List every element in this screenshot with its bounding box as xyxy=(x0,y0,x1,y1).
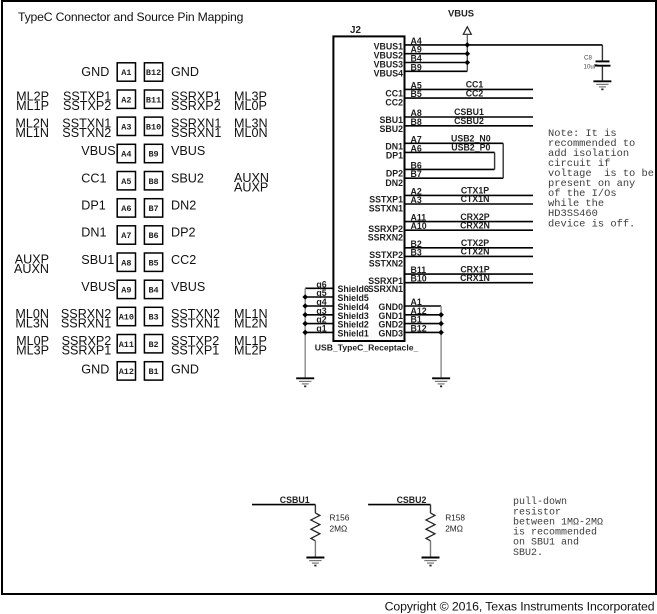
svg-text:USB2_P0: USB2_P0 xyxy=(451,143,490,153)
svg-text:B4: B4 xyxy=(148,286,158,296)
wire pin A8 xyxy=(405,116,534,118)
svg-text:SBU2: SBU2 xyxy=(171,171,204,185)
pin name Shield4 xyxy=(338,302,369,312)
svg-text:DP1: DP1 xyxy=(386,150,403,160)
net label CSBU2 xyxy=(454,116,484,126)
wire pin B5 xyxy=(405,97,534,99)
wire pin q6 xyxy=(305,287,333,289)
svg-text:B7: B7 xyxy=(148,204,158,214)
table near-right label VBUS xyxy=(171,280,205,294)
table far-right label ML1N/ML2N xyxy=(234,307,268,330)
copyright xyxy=(385,600,655,614)
note text (pull-down) xyxy=(513,496,603,559)
value 2MOhm (R158) xyxy=(445,524,463,534)
pin number A9 xyxy=(411,45,422,55)
svg-text:CSBU2: CSBU2 xyxy=(397,495,427,505)
wire USB2_P0 loop vertical xyxy=(494,152,496,169)
net label CC1 xyxy=(466,80,484,90)
pin name SSRXP1 xyxy=(368,276,403,286)
svg-text:SSTXN1: SSTXN1 xyxy=(171,316,220,330)
svg-text:VBUS: VBUS xyxy=(81,280,115,294)
pin name SBU2 xyxy=(380,124,404,134)
svg-text:Shield1: Shield1 xyxy=(338,328,369,338)
svg-text:CTX1N: CTX1N xyxy=(461,194,490,204)
pin number q6 xyxy=(316,279,326,289)
wire CSBU2 xyxy=(368,504,430,506)
resistor R156 xyxy=(311,505,320,557)
junction VBUS A9 xyxy=(465,51,471,57)
capacitor C8 xyxy=(595,45,611,80)
svg-text:B8: B8 xyxy=(411,117,422,127)
junction shield g at y=314.8 xyxy=(302,312,308,318)
svg-text:VBUS: VBUS xyxy=(81,144,115,158)
wire pin q3 xyxy=(305,314,333,316)
svg-text:B1: B1 xyxy=(148,367,158,377)
net label CTX2P xyxy=(461,238,489,248)
pin box A4 xyxy=(117,144,135,162)
note text (isolation) xyxy=(548,128,654,230)
pin name CC1 xyxy=(385,89,403,99)
svg-text:ML1P: ML1P xyxy=(16,99,49,113)
svg-text:AUXN: AUXN xyxy=(14,262,49,276)
wire pin A12 xyxy=(405,314,442,316)
table near-left label GND xyxy=(81,65,109,79)
svg-text:A4: A4 xyxy=(121,150,131,160)
svg-text:R158: R158 xyxy=(445,512,465,522)
svg-text:A10: A10 xyxy=(119,313,134,323)
svg-text:SSRXN1: SSRXN1 xyxy=(368,284,403,294)
pin number A5 xyxy=(411,80,422,90)
pin name DP1 xyxy=(386,150,403,160)
pin number B6 xyxy=(411,160,422,170)
pin box A3 xyxy=(117,117,135,135)
svg-text:GND: GND xyxy=(171,362,199,376)
pin number A12 xyxy=(411,306,427,316)
pin name Shield3 xyxy=(338,311,369,321)
wire pin A1 xyxy=(405,305,442,307)
svg-text:CSBU1: CSBU1 xyxy=(280,495,310,505)
pin number B4 xyxy=(411,54,422,64)
label C8 xyxy=(584,54,592,61)
pin number B11 xyxy=(411,265,427,275)
wire pin B2 xyxy=(405,247,534,249)
svg-text:2MΩ: 2MΩ xyxy=(445,524,463,534)
ground (shield) xyxy=(296,378,314,387)
svg-text:A6: A6 xyxy=(411,143,422,153)
junction VBUS A4 xyxy=(465,42,471,48)
net label CSBU1 xyxy=(454,107,484,117)
junction GND at y=314.8 xyxy=(438,312,444,318)
net label CRX2P xyxy=(460,212,489,222)
svg-text:DN1: DN1 xyxy=(81,226,106,240)
pin name Shield2 xyxy=(338,320,369,330)
svg-text:A9: A9 xyxy=(121,286,131,296)
pin box A9 xyxy=(117,280,135,298)
net label USB2_P0 xyxy=(451,143,490,153)
table near-right label SSRXP1/SSRXP2 xyxy=(171,90,221,113)
table near-left label SSTXP1/SSTXP2 xyxy=(63,90,111,113)
pin box B6 xyxy=(144,226,162,244)
pin box B3 xyxy=(144,307,162,325)
svg-text:10uF: 10uF xyxy=(584,64,598,71)
wire pin B9 xyxy=(405,70,468,72)
svg-text:DP1: DP1 xyxy=(81,198,106,212)
wire pin B1 xyxy=(405,323,442,325)
pin name DN1 xyxy=(385,141,403,151)
svg-text:ML0P: ML0P xyxy=(234,99,267,113)
junction VBUS B4 xyxy=(465,60,471,66)
svg-text:A3: A3 xyxy=(121,123,131,133)
table near-left label VBUS xyxy=(81,144,115,158)
table near-right label DP2 xyxy=(171,226,196,240)
wire VBUS vertical bus xyxy=(466,45,468,71)
value 10uF xyxy=(584,64,598,71)
wire GND vertical xyxy=(440,306,442,377)
title xyxy=(18,10,243,24)
pin number B7 xyxy=(411,169,422,179)
table near-right label SBU2 xyxy=(171,171,204,185)
svg-text:CC2: CC2 xyxy=(466,88,484,98)
pin box A12 xyxy=(117,362,135,380)
svg-text:ML1N: ML1N xyxy=(15,126,49,140)
wire pin A10 xyxy=(405,229,534,231)
pin name DN2 xyxy=(385,178,403,188)
pin number A1 xyxy=(411,297,422,307)
svg-text:B9: B9 xyxy=(148,150,158,160)
pin number A4 xyxy=(411,36,422,46)
pin box B2 xyxy=(144,335,162,353)
svg-text:DP2: DP2 xyxy=(171,226,196,240)
wire pin B6 xyxy=(405,168,495,170)
value 2MOhm (R156) xyxy=(330,524,348,534)
pin number A3 xyxy=(411,195,422,205)
svg-text:q1: q1 xyxy=(316,323,326,333)
svg-text:CC2: CC2 xyxy=(385,98,403,108)
svg-text:A2: A2 xyxy=(121,95,131,105)
net label CTX1P xyxy=(461,186,489,196)
svg-text:GND: GND xyxy=(81,65,109,79)
pin number B3 xyxy=(411,247,422,257)
svg-text:C8: C8 xyxy=(584,54,592,61)
net label CSBU1 xyxy=(280,495,310,505)
ground (C8) xyxy=(593,81,611,90)
wire pin A2 xyxy=(405,194,534,196)
table near-right label VBUS xyxy=(171,144,205,158)
pin name VBUS4 xyxy=(374,69,403,79)
table near-left label DN1 xyxy=(81,226,106,240)
part name USB_TypeC_Receptacle_ xyxy=(315,342,419,352)
table near-left label SBU1 xyxy=(81,253,114,267)
pin name CC2 xyxy=(385,98,403,108)
pin name SSTXP2 xyxy=(369,250,403,260)
pin number B8 xyxy=(411,117,422,127)
pin name VBUS3 xyxy=(374,60,403,70)
svg-text:SBU2.: SBU2. xyxy=(513,548,543,559)
svg-text:Copyright © 2016, Texas Instru: Copyright © 2016, Texas Instruments Inco… xyxy=(385,600,655,614)
wire pin A3 xyxy=(405,203,534,205)
junction GND at y=332.4 xyxy=(438,330,444,336)
wire pin q4 xyxy=(305,305,333,307)
svg-text:B10: B10 xyxy=(411,274,427,284)
svg-text:SSRXP1: SSRXP1 xyxy=(62,344,112,358)
svg-text:B6: B6 xyxy=(148,231,158,241)
svg-text:B3: B3 xyxy=(148,313,158,323)
junction shield g at y=332.4 xyxy=(302,330,308,336)
table near-left label SSRXP2/SSRXP1 xyxy=(62,334,112,357)
wire pin q1 xyxy=(305,331,333,333)
pin box A10 xyxy=(117,307,135,325)
table near-left label SSRXN2/SSRXN1 xyxy=(61,307,111,330)
pin number B5 xyxy=(411,89,422,99)
pin name GND3 xyxy=(379,328,404,338)
pin box B8 xyxy=(144,172,162,190)
svg-text:SSTXN2: SSTXN2 xyxy=(62,126,111,140)
svg-text:CC2: CC2 xyxy=(171,253,196,267)
pin name VBUS2 xyxy=(374,51,403,61)
pin name Shield1 xyxy=(338,328,369,338)
pin number B10 xyxy=(411,274,427,284)
svg-text:A7: A7 xyxy=(121,231,131,241)
pin box B9 xyxy=(144,144,162,162)
net label CC2 xyxy=(466,88,484,98)
svg-text:A5: A5 xyxy=(121,177,131,187)
svg-text:SSTXP2: SSTXP2 xyxy=(63,99,111,113)
pin box B4 xyxy=(144,280,162,298)
pin box B10 xyxy=(144,117,162,135)
table far-right label ML1P/ML2P xyxy=(234,334,267,357)
pin number B9 xyxy=(411,62,422,72)
pin name SSTXP1 xyxy=(369,195,403,205)
junction shield g at y=306.0 xyxy=(302,303,308,309)
table near-right label GND xyxy=(171,65,199,79)
power symbol VBUS xyxy=(463,27,471,45)
svg-text:B12: B12 xyxy=(411,323,427,333)
connector J2 USB_TypeC_Receptacle xyxy=(333,36,404,341)
svg-text:A1: A1 xyxy=(121,68,131,78)
net label CRX1P xyxy=(460,264,489,274)
wire pin B8 xyxy=(405,125,534,127)
wire pin B10 xyxy=(405,282,534,284)
pin number q5 xyxy=(316,288,326,298)
wire pin q5 xyxy=(305,296,333,298)
wire shield ground vertical xyxy=(304,288,306,377)
pin box A1 xyxy=(117,63,135,81)
table near-right label SSTXP2/SSTXP1 xyxy=(171,334,219,357)
svg-text:VBUS: VBUS xyxy=(448,7,474,18)
pin name SSRXP2 xyxy=(368,224,403,234)
svg-text:VBUS: VBUS xyxy=(171,144,205,158)
pin box A11 xyxy=(117,335,135,353)
table near-left label GND xyxy=(81,362,109,376)
svg-text:CRX1N: CRX1N xyxy=(460,273,490,283)
net label USB2_N0 xyxy=(451,134,491,144)
svg-text:B11: B11 xyxy=(146,95,161,105)
table near-right label GND xyxy=(171,362,199,376)
svg-text:ML2N: ML2N xyxy=(234,316,268,330)
table near-left label DP1 xyxy=(81,198,106,212)
svg-text:USB_TypeC_Receptacle_: USB_TypeC_Receptacle_ xyxy=(315,342,419,352)
pin box B5 xyxy=(144,253,162,271)
svg-text:A11: A11 xyxy=(119,340,134,350)
pin number A2 xyxy=(411,186,422,196)
svg-text:B8: B8 xyxy=(148,177,158,187)
svg-text:DN2: DN2 xyxy=(171,198,196,212)
refdes R158 xyxy=(445,512,465,522)
svg-text:J2: J2 xyxy=(350,25,361,36)
svg-text:A10: A10 xyxy=(411,221,427,231)
svg-text:DN2: DN2 xyxy=(385,178,403,188)
svg-text:ML0N: ML0N xyxy=(234,126,268,140)
resistor R158 xyxy=(426,505,435,557)
pin number q4 xyxy=(316,297,326,307)
junction shield g at y=323.6 xyxy=(302,321,308,327)
ground (GND pins) xyxy=(432,378,450,387)
svg-text:VBUS: VBUS xyxy=(171,280,205,294)
wire pin A9 xyxy=(405,53,468,55)
svg-text:ML2P: ML2P xyxy=(234,344,267,358)
svg-text:SSTXN1: SSTXN1 xyxy=(369,204,403,214)
pin box B7 xyxy=(144,199,162,217)
pin name VBUS1 xyxy=(374,42,403,52)
svg-text:device is off.: device is off. xyxy=(548,218,635,230)
junction GND at y=323.6 xyxy=(438,321,444,327)
pin number A7 xyxy=(411,134,422,144)
svg-text:A3: A3 xyxy=(411,195,422,205)
pin box B1 xyxy=(144,362,162,380)
svg-text:ML3P: ML3P xyxy=(16,344,49,358)
pin name Shield5 xyxy=(338,293,369,303)
refdes R156 xyxy=(330,512,350,522)
table far-left label ML0P/ML3P xyxy=(16,334,49,357)
net label CRX2N xyxy=(460,220,490,230)
svg-text:SSTXN2: SSTXN2 xyxy=(369,258,403,268)
net label CRX1N xyxy=(460,273,490,283)
svg-text:SSRXN1: SSRXN1 xyxy=(171,126,221,140)
table far-right label ML3P/ML0P xyxy=(234,90,267,113)
pin name SSRXN2 xyxy=(368,233,403,243)
svg-text:SSRXN2: SSRXN2 xyxy=(368,233,403,243)
table near-left label CC1 xyxy=(81,171,106,185)
pin name GND2 xyxy=(379,320,404,330)
svg-text:GND: GND xyxy=(171,65,199,79)
pin name DP2 xyxy=(386,169,403,179)
wire USB2_N0 loop vertical xyxy=(502,143,504,178)
svg-text:CSBU2: CSBU2 xyxy=(454,116,484,126)
ground (R158) xyxy=(422,558,440,567)
table near-right label DN2 xyxy=(171,198,196,212)
pin number q3 xyxy=(316,306,326,316)
pin box B12 xyxy=(144,63,162,81)
svg-text:SBU2: SBU2 xyxy=(380,124,404,134)
wire pin B4 xyxy=(405,62,468,64)
pin name SSTXN2 xyxy=(369,258,403,268)
pin number B1 xyxy=(411,315,422,325)
net label VBUS (power) xyxy=(448,7,474,18)
svg-text:TypeC Connector and Source Pin: TypeC Connector and Source Pin Mapping xyxy=(18,10,243,24)
svg-text:AUXP: AUXP xyxy=(234,180,268,194)
svg-text:B2: B2 xyxy=(148,340,158,350)
table near-right label CC2 xyxy=(171,253,196,267)
svg-text:B12: B12 xyxy=(146,68,161,78)
pin name GND1 xyxy=(379,311,404,321)
table near-left label SSTXN1/SSTXN2 xyxy=(62,117,111,140)
wire pin B7 xyxy=(405,177,504,179)
pin number A8 xyxy=(411,108,422,118)
pin box A7 xyxy=(117,226,135,244)
pin number B12 xyxy=(411,323,427,333)
svg-text:SBU1: SBU1 xyxy=(81,253,114,267)
pin number A10 xyxy=(411,221,427,231)
pin number q2 xyxy=(316,315,326,325)
pin number A11 xyxy=(411,213,427,223)
pin box A8 xyxy=(117,253,135,271)
svg-text:SSTXP1: SSTXP1 xyxy=(171,344,219,358)
table far-left label ML2N/ML1N xyxy=(15,117,49,140)
svg-text:B3: B3 xyxy=(411,247,422,257)
svg-text:ML3N: ML3N xyxy=(15,316,49,330)
svg-text:B5: B5 xyxy=(411,89,422,99)
svg-text:CTX2N: CTX2N xyxy=(461,247,490,257)
svg-text:GND: GND xyxy=(81,362,109,376)
table near-right label SSRXN1/SSRXN1 xyxy=(171,117,221,140)
wire pin A6 xyxy=(405,151,495,153)
svg-text:A8: A8 xyxy=(121,258,131,268)
net label CTX1N xyxy=(461,194,490,204)
pin name GND0 xyxy=(379,302,404,312)
table far-right label AUXN/AUXP xyxy=(234,171,269,194)
table far-left label AUXP/AUXN xyxy=(14,253,49,276)
svg-text:GND3: GND3 xyxy=(379,328,404,338)
net label CSBU2 xyxy=(397,495,427,505)
svg-text:2MΩ: 2MΩ xyxy=(330,524,348,534)
wire pin A7 xyxy=(405,142,504,144)
svg-text:CC1: CC1 xyxy=(81,171,106,185)
svg-text:SSRXP2: SSRXP2 xyxy=(171,99,221,113)
pin box A5 xyxy=(117,172,135,190)
pin name SBU1 xyxy=(380,115,404,125)
pin number A6 xyxy=(411,143,422,153)
wire pin B12 xyxy=(405,331,442,333)
pin box A2 xyxy=(117,90,135,108)
pin number q1 xyxy=(316,323,326,333)
wire pin A5 xyxy=(405,88,534,90)
wire pin q2 xyxy=(305,323,333,325)
pin box B11 xyxy=(144,90,162,108)
svg-text:CRX2N: CRX2N xyxy=(460,220,490,230)
pin name SSTXN1 xyxy=(369,204,403,214)
svg-text:R156: R156 xyxy=(330,512,350,522)
svg-text:B9: B9 xyxy=(411,62,422,72)
svg-text:A6: A6 xyxy=(121,204,131,214)
pin box A6 xyxy=(117,199,135,217)
svg-text:A12: A12 xyxy=(119,367,134,377)
ground (R156) xyxy=(306,558,324,567)
net label CTX2N xyxy=(461,247,490,257)
svg-text:VBUS4: VBUS4 xyxy=(374,69,403,79)
svg-text:SSRXN1: SSRXN1 xyxy=(61,316,111,330)
pin name Shield6 / SSRXN1 xyxy=(338,284,404,294)
table far-left label ML2P/ML1P xyxy=(16,90,49,113)
wire pin B3 xyxy=(405,255,534,257)
svg-text:B5: B5 xyxy=(148,258,158,268)
wire pin B11 xyxy=(405,273,534,275)
junction shield g at y=297.0 xyxy=(302,294,308,300)
table near-right label SSTXN2/SSTXN1 xyxy=(171,307,220,330)
wire CSBU1 xyxy=(252,504,315,506)
pin number B2 xyxy=(411,239,422,249)
refdes J2 xyxy=(350,25,361,36)
table near-left label VBUS xyxy=(81,280,115,294)
